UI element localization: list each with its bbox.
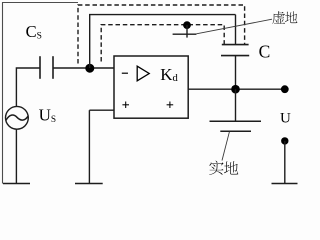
- source US circle: [6, 106, 29, 129]
- inner guard dashed line: [101, 25, 224, 62]
- virtual-ground tap lead: [186, 25, 188, 37]
- outer shield dashed line: [78, 5, 245, 64]
- real ground bar 1: [210, 120, 262, 122]
- output node junction dot: [231, 85, 240, 94]
- svg-text:CS: CS: [26, 22, 42, 42]
- leader line to 虚地 label: [196, 19, 272, 34]
- port bottom lead to ground: [284, 141, 286, 184]
- label 虚地 (virtual ground): [272, 11, 297, 24]
- svg-text:US: US: [39, 105, 56, 125]
- svg-text:Kd: Kd: [160, 65, 178, 84]
- wire CS to inverting input: [53, 67, 114, 69]
- real ground bar 2: [220, 130, 251, 132]
- ground bar under non-inverting input: [75, 183, 103, 185]
- wire down to C top plate: [235, 15, 237, 45]
- op-amp U1 box: [114, 56, 188, 118]
- output port top dot: [281, 85, 289, 93]
- output port bottom dot: [281, 137, 288, 144]
- wire node A up: [89, 15, 91, 68]
- gain triangle: [137, 66, 149, 81]
- ground bar under source: [3, 183, 30, 185]
- virtual-ground tap dot on guard line: [183, 21, 191, 29]
- virtual-ground tap bar: [173, 33, 197, 35]
- top wire to feedback capacitor: [89, 14, 236, 16]
- minus sign (inverting input): [122, 72, 128, 74]
- plus sign input left: [122, 102, 129, 109]
- sine wave inside source: [6, 115, 28, 120]
- svg-text:C: C: [259, 42, 271, 62]
- ground enclosure frame (top-left + left side): [3, 3, 79, 184]
- plus sign input right: [167, 102, 174, 109]
- svg-text:U: U: [280, 111, 291, 127]
- non-inverting input wire: [89, 109, 114, 111]
- source bottom lead to ground: [15, 129, 17, 183]
- leader line to 实地 label: [222, 132, 229, 161]
- wire C bottom plate to output: [235, 56, 237, 90]
- real ground lead from output node: [235, 89, 237, 121]
- ground bar bottom right: [272, 183, 298, 185]
- non-inverting input down to ground: [88, 110, 90, 183]
- wire from CS left to source top: [16, 68, 40, 107]
- feedback capacitor C plates: [222, 44, 249, 46]
- label 实地 (real ground): [209, 161, 238, 175]
- node A junction dot: [85, 64, 94, 73]
- capacitor CS plates: [39, 56, 41, 79]
- output wire: [188, 88, 285, 90]
